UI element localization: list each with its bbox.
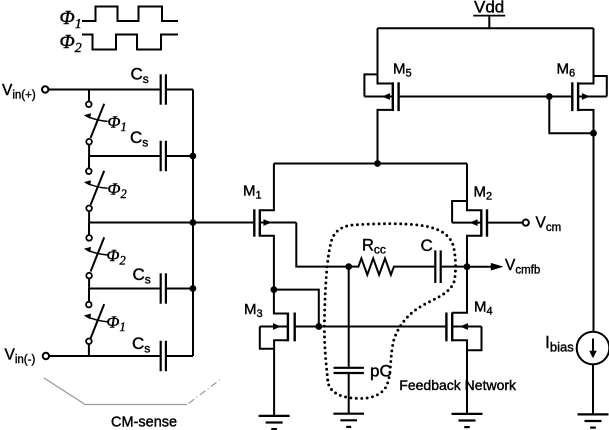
switch S2 phi2: [86, 156, 104, 223]
junction Vcmfb node: [464, 263, 471, 270]
svg-text:M4: M4: [474, 299, 493, 318]
switch S2 arc arrow: [84, 180, 108, 188]
junction bus line4: [190, 285, 197, 292]
wire M6 gate-drain connect: [549, 97, 593, 134]
svg-text:M3: M3: [244, 301, 263, 320]
wire tail rail: [274, 163, 467, 165]
wire M3 gate to M4 gate: [295, 326, 447, 328]
wire Vin(-) line: [49, 355, 159, 357]
wire gate M5 to M6: [399, 96, 573, 98]
svg-text:Ibias: Ibias: [545, 332, 574, 355]
svg-text:Cs: Cs: [133, 265, 151, 287]
junction bus line2: [190, 153, 197, 160]
svg-text:M5: M5: [393, 61, 412, 80]
svg-text:Φ2: Φ2: [108, 179, 127, 201]
switch S4 phi1: [86, 289, 104, 357]
capacitor Cs3: [161, 273, 166, 303]
ground M4: [452, 414, 483, 427]
resistor Rcc: [349, 258, 435, 274]
wire Cs3 to bus: [167, 288, 193, 290]
switch S1 phi1: [86, 90, 104, 157]
wire Ibias to ground: [592, 364, 594, 414]
wire drain node to gate wire: [274, 290, 319, 327]
wire M2 gate to Vcm: [487, 222, 522, 224]
wire Cs1 to bus: [167, 89, 193, 91]
svg-text:Cs: Cs: [132, 334, 150, 356]
current source Ibias: [577, 332, 609, 365]
transistor M1: [254, 164, 296, 290]
svg-text:Vcm: Vcm: [536, 215, 562, 234]
clock waveform phi1: [82, 7, 178, 22]
capacitor Cs4: [161, 341, 166, 371]
transistor M3: [260, 290, 295, 416]
junction bus line3: [190, 219, 197, 226]
svg-text:Vdd: Vdd: [474, 0, 504, 17]
svg-text:M1: M1: [243, 183, 262, 202]
svg-text:M6: M6: [557, 61, 576, 80]
wire pC branch: [348, 267, 350, 367]
wire M6 drain to Ibias: [593, 133, 595, 332]
switch S3 phi2: [86, 223, 104, 289]
wire pC to ground: [348, 374, 350, 414]
wire line4: [89, 288, 160, 290]
svg-text:Vin(-): Vin(-): [5, 347, 36, 366]
arrow Vcmfb: [467, 263, 504, 271]
transistor M4: [446, 267, 481, 414]
capacitor C: [435, 250, 440, 283]
junction M6 drain: [590, 130, 597, 137]
wire Vin(+) line: [49, 89, 160, 91]
terminal Vdd bar: [473, 15, 505, 17]
wire M1 bulk to feedback node: [296, 223, 348, 267]
svg-text:Φ1: Φ1: [108, 113, 127, 135]
svg-text:M2: M2: [474, 184, 493, 203]
terminal Vcm: [523, 220, 529, 226]
junction M1 M3 drain node: [271, 286, 278, 293]
wire line3 CM-sense output: [89, 222, 254, 224]
capacitor Cs1: [161, 74, 166, 104]
wire Vdd stub: [488, 16, 490, 29]
transistor M6: [572, 28, 607, 133]
clock waveform phi2: [82, 35, 178, 50]
svg-text:Rcc: Rcc: [362, 237, 386, 257]
junction gate node: [315, 323, 322, 330]
svg-text:Feedback Network: Feedback Network: [399, 377, 517, 393]
junction gate wire tap: [546, 93, 553, 100]
ground Ibias: [578, 414, 609, 427]
wire Cs4 to bus: [167, 355, 193, 357]
svg-text:Φ2: Φ2: [107, 246, 126, 268]
ground M3: [259, 416, 290, 429]
junction pC tap: [345, 263, 352, 270]
svg-text:C: C: [421, 236, 433, 255]
switch S1 arc arrow: [84, 113, 108, 121]
svg-text:Vin(+): Vin(+): [2, 82, 36, 101]
switch S3 arc arrow: [84, 247, 108, 255]
CM-sense brace: [44, 378, 222, 405]
transistor M2: [452, 164, 487, 267]
svg-text:Cs: Cs: [130, 128, 148, 150]
svg-text:Φ1: Φ1: [107, 312, 126, 334]
switch S4 arc arrow: [84, 314, 108, 322]
ground pC: [333, 414, 364, 427]
transistor M5: [364, 28, 398, 163]
wire Cs2 to bus: [167, 155, 193, 157]
wire sense bus: [192, 90, 194, 357]
svg-text:Φ1: Φ1: [60, 7, 82, 32]
dotted blob feedback network: [324, 224, 455, 399]
wire C to Vcmfb node: [442, 266, 467, 268]
svg-text:CM-sense: CM-sense: [111, 415, 177, 430]
wire line2: [89, 155, 160, 157]
wire Vdd rail: [378, 27, 594, 29]
terminal Vin(-): [43, 353, 49, 359]
terminal Vin(+): [42, 86, 48, 92]
capacitor pC: [334, 368, 364, 373]
junction M5 drain tail: [374, 160, 381, 167]
svg-text:Vcmfb: Vcmfb: [505, 257, 540, 276]
capacitor Cs2: [161, 141, 166, 171]
svg-text:Cs: Cs: [131, 65, 149, 87]
svg-text:Φ2: Φ2: [60, 31, 82, 56]
